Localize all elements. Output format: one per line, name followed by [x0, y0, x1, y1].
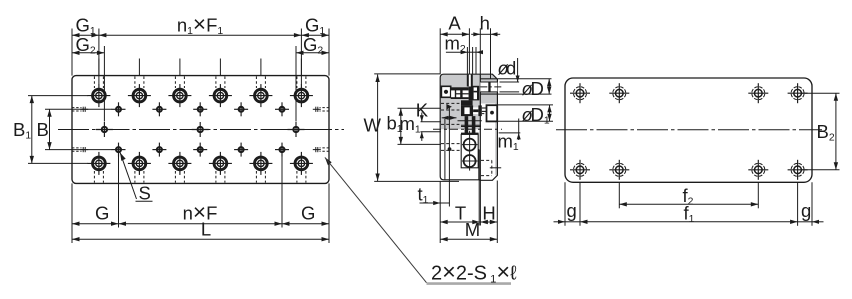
dimension G2 right [296, 52, 329, 54]
dimension n1xF1 [99, 34, 302, 36]
section outline, left plate [440, 74, 480, 180]
svg-text:D1: D1 [531, 104, 550, 127]
upper bolt nut block (black) with slots [469, 86, 480, 101]
dimension G2 left [72, 52, 104, 54]
extension lines, bottom dimensions [118, 153, 120, 228]
lower bolt head square (right side) with dot [487, 105, 498, 121]
dimension L [72, 238, 329, 240]
plate outline (top view) [72, 76, 329, 184]
leader and label S [120, 153, 126, 161]
tapped through holes [570, 92, 590, 94]
counterbored holes, top and bottom rows [87, 95, 110, 97]
dimension b1 [400, 108, 402, 144]
dimension h (outside arrows) [473, 32, 480, 36]
small holes, rows 2 and 3 [112, 108, 126, 110]
extension lines below right plate [564, 182, 566, 226]
svg-text:G: G [301, 203, 315, 224]
oD extension lines and dimension [498, 78, 552, 80]
hidden counterbore (lower right), dashed [481, 159, 492, 161]
center line (horizontal datum) [58, 129, 344, 131]
dimension B [49, 109, 51, 149]
oD cylinder on right plate (upper) [480, 78, 497, 80]
dimension nxF [119, 223, 283, 225]
hidden side-tap (lower) dashes and point [441, 143, 461, 145]
dimension G1 right [301, 34, 329, 36]
K slot width arrow [442, 116, 449, 120]
oD1 extension lines and dimension [497, 104, 553, 106]
m1 right dimension [499, 132, 521, 134]
svg-text:n1×F1: n1×F1 [177, 12, 224, 38]
svg-text:t1: t1 [418, 183, 429, 206]
svg-text:G2: G2 [303, 34, 323, 57]
svg-text:M: M [465, 219, 480, 240]
dimension B2 [835, 93, 837, 170]
plate outline (right view) [565, 78, 812, 182]
lower bolt shank going down [465, 116, 469, 134]
svg-text:m1: m1 [498, 131, 519, 154]
extension lines below section [439, 181, 441, 243]
svg-text:H: H [482, 203, 495, 224]
extension lines above section [439, 28, 441, 74]
dimension G bottom-right [282, 223, 329, 225]
dimension t1 [420, 202, 450, 204]
extension lines, top dimensions [71, 29, 73, 76]
section gray fill, upper body [441, 75, 481, 130]
dimension f1 with g arrows [580, 221, 798, 223]
projection stubs above/below counterbore holes [98, 59, 100, 76]
upper horizontal bolt: head recess square with drill dot [441, 86, 450, 97]
svg-text:S: S [139, 183, 151, 204]
dimension B1 [31, 96, 33, 164]
svg-text:B2: B2 [817, 121, 835, 144]
dimension G bottom-left [72, 223, 119, 225]
svg-text:L: L [201, 219, 211, 240]
svg-text:d: d [506, 58, 516, 79]
bolt head slot through section top [467, 75, 473, 87]
vertical lines right of boss [478, 149, 480, 180]
face tapped hole (lower circle) [462, 160, 478, 162]
right plate gray, upper block with chamfer [480, 75, 497, 104]
dimension M [440, 238, 497, 240]
right plate gray band [495, 104, 497, 176]
dashed line below K arrow [441, 123, 459, 125]
right plate outline with chamfered corners [480, 74, 497, 180]
W extension lines [374, 73, 440, 75]
dimension T [440, 221, 480, 223]
black bridge below nut [461, 100, 473, 105]
holes on center line [96, 129, 113, 131]
svg-text:G2: G2 [76, 34, 96, 57]
extension lines for B1 / B [28, 95, 88, 97]
upper bolt shank/thread block [451, 87, 469, 99]
inner edge line lower-left [444, 119, 446, 180]
od extension lines and dimension [500, 81, 520, 83]
dimension G1 left [72, 34, 99, 36]
svg-text:W: W [364, 115, 382, 136]
dimension H [480, 221, 497, 223]
boss block around face taps [461, 133, 479, 135]
svg-text:2×2-S 1×ℓ: 2×2-S 1×ℓ [431, 259, 517, 286]
center line [556, 129, 822, 131]
svg-text:D: D [531, 78, 544, 99]
svg-text:h: h [480, 13, 490, 34]
dimension f2 [619, 203, 758, 205]
dimension A [440, 33, 469, 35]
leader to 2x2-S1xl label [325, 157, 332, 165]
svg-text:A: A [448, 13, 461, 34]
dimension W [377, 75, 379, 182]
svg-text:G: G [95, 203, 109, 224]
b1 extension lines [398, 107, 442, 109]
B2 extension lines [801, 92, 840, 94]
section center line dashes [433, 128, 502, 130]
svg-text:B1: B1 [13, 119, 31, 142]
side tapped hole symbols (hidden) on left/right edges [72, 107, 82, 109]
hidden side-tap (upper) dashed lines and point [441, 102, 459, 104]
face tapped hole (upper circle) [462, 144, 478, 146]
dimension m1 left (outside arrows) [421, 113, 423, 122]
svg-text:g: g [801, 200, 811, 221]
svg-text:K: K [416, 100, 429, 121]
lower horizontal bolt cluster [461, 105, 473, 116]
dimension m2 (outside arrows) [446, 51, 468, 53]
m1 left extension lines [421, 121, 442, 123]
svg-text:g: g [567, 200, 577, 221]
svg-text:B: B [37, 119, 49, 140]
